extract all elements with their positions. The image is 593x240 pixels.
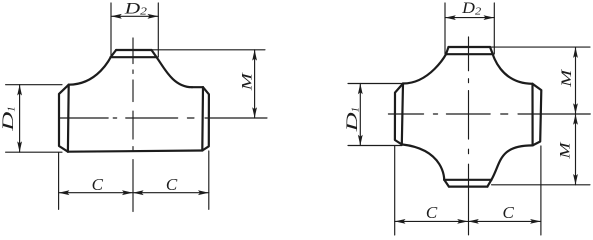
- tee branch left bevel: [111, 50, 117, 57]
- dimension D2 right extension line: [157, 3, 159, 57]
- arrowheads left figure: [17, 14, 257, 195]
- svg-text:M: M: [558, 141, 574, 160]
- dimension D1 top extension line: [6, 84, 62, 86]
- dimension M extension line: [152, 49, 265, 51]
- M top arrow: [252, 50, 257, 61]
- cross horizontal centerline: [388, 113, 590, 115]
- D2 right arrow: [148, 14, 159, 19]
- cross dimension D2 right extension line: [493, 3, 495, 54]
- cross D1 bottom arrow: [358, 135, 363, 146]
- tee horizontal centerline: [60, 117, 268, 119]
- cross dimension D2 line: [445, 17, 494, 19]
- tee body bottom edge: [68, 151, 202, 152]
- cross dimension D1 bottom extension line: [348, 145, 402, 147]
- label C left right figure: [426, 203, 438, 222]
- D2 left arrow: [111, 14, 122, 19]
- tee vertical centerline: [132, 38, 134, 212]
- cross D2 right arrow: [484, 15, 495, 20]
- label D1 left figure: [0, 106, 17, 132]
- cross outline: [395, 47, 541, 187]
- dimension D2 left extension line: [110, 3, 112, 57]
- dimension M line: [254, 50, 256, 118]
- dimension D1 line: [19, 85, 21, 153]
- cross dimension D1 line: [359, 84, 361, 146]
- cross vertical centerline: [468, 37, 470, 235]
- dimension C right extension line: [208, 151, 210, 209]
- tee branch right bevel: [152, 50, 157, 57]
- cross bottom branch bevel base line: [444, 179, 491, 181]
- cross dimension C line: [395, 220, 541, 222]
- cross dimension M bottom extension line: [492, 184, 591, 186]
- dimension D2 line: [111, 15, 158, 17]
- M bottom arrow: [252, 107, 257, 118]
- cross top branch top edge: [449, 46, 491, 48]
- label M bottom right figure: [558, 141, 574, 160]
- cross M bottom up arrow: [573, 114, 578, 125]
- cross right branch outer face: [533, 84, 542, 146]
- dimension C line: [59, 192, 209, 194]
- cross M bottom down arrow: [573, 174, 578, 185]
- cross D1 top arrow: [358, 84, 363, 95]
- label D2 right figure: [461, 0, 482, 17]
- label D1 right figure: [344, 107, 361, 133]
- tee outline: [59, 50, 209, 152]
- cross dimension C left extension line: [394, 146, 396, 235]
- D1 bottom arrow: [17, 141, 22, 152]
- cross D2 left arrow: [445, 15, 456, 20]
- tee right end chamfer edge line: [201, 87, 204, 150]
- svg-text:M: M: [559, 68, 575, 88]
- tee branch top edge: [116, 49, 151, 51]
- svg-text:M: M: [240, 71, 256, 91]
- cross C right arrow: [530, 219, 541, 224]
- cross bottom branch left bevel: [444, 180, 449, 187]
- cross top-left fillet: [403, 54, 446, 83]
- label C left left figure: [92, 175, 104, 194]
- cross bottom-right fillet: [491, 145, 532, 179]
- C middle right arrow: [133, 190, 144, 195]
- label D2 left figure: [123, 0, 147, 17]
- cross dimension C right extension line: [540, 146, 542, 235]
- C left arrow: [59, 190, 70, 195]
- tee left fillet: [69, 57, 111, 84]
- tee right fillet: [157, 57, 192, 87]
- cross dimension M bottom line: [575, 114, 577, 185]
- cross top branch left bevel: [446, 47, 449, 54]
- cross bottom-left fillet: [402, 144, 444, 179]
- dimension C left extension line: [58, 153, 60, 210]
- svg-text:C: C: [503, 203, 515, 222]
- cross left branch chamfer edge line: [402, 84, 403, 145]
- svg-text:C: C: [426, 203, 438, 222]
- cross M top down arrow: [573, 103, 578, 114]
- label C right right figure: [503, 203, 515, 222]
- tee body top edge right segment: [192, 86, 203, 88]
- C right arrow: [198, 190, 209, 195]
- cross top-right fillet: [493, 54, 533, 84]
- cross dimension M top line: [575, 47, 577, 114]
- cross top branch bevel base line: [446, 53, 493, 55]
- cross top branch right bevel: [490, 47, 493, 54]
- cross dimension D1 top extension line: [348, 83, 403, 85]
- cross bottom branch right bevel: [487, 180, 491, 187]
- C middle left arrow: [122, 190, 133, 195]
- cross C middle left arrow: [457, 219, 468, 224]
- tee branch bevel base line: [111, 56, 157, 58]
- tee right end face outer line: [202, 87, 209, 150]
- cross left branch outer face: [395, 84, 403, 145]
- cross dimension D2 left extension line: [444, 3, 446, 54]
- cross C middle right arrow: [468, 219, 479, 224]
- label C right left figure: [166, 175, 178, 194]
- tee left end face outer line: [59, 85, 69, 152]
- D1 top arrow: [17, 85, 22, 96]
- arrowheads right figure: [358, 15, 578, 224]
- svg-text:C: C: [92, 175, 104, 194]
- tee left end chamfer edge line: [67, 85, 70, 152]
- dimension D1 bottom extension line: [6, 151, 62, 153]
- label M left figure: [240, 71, 256, 91]
- cross M top up arrow: [573, 47, 578, 58]
- label M top right figure: [559, 68, 575, 88]
- svg-text:C: C: [166, 175, 178, 194]
- cross dimension M top extension line: [490, 46, 590, 48]
- cross C left arrow: [395, 219, 406, 224]
- cross right branch chamfer edge line: [531, 84, 533, 146]
- cross bottom branch bottom edge: [449, 186, 488, 188]
